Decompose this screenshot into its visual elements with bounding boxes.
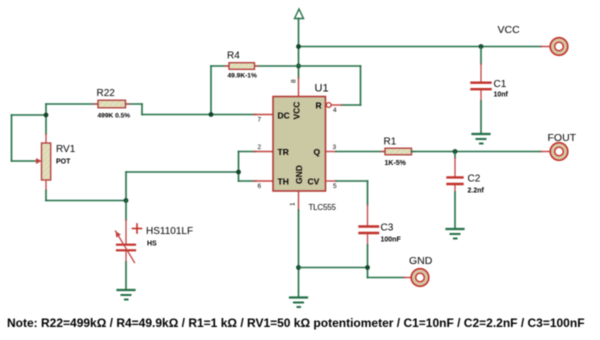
wire reset loop — [299, 66, 361, 105]
wire CV pin to C3 — [326, 180, 337, 182]
node junction at R4/reset loop — [296, 64, 301, 69]
ground under sensor — [118, 290, 135, 300]
node junction R4/DC — [209, 112, 214, 117]
svg-text:1: 1 — [290, 202, 297, 206]
ground under C1 — [473, 134, 490, 144]
wire main vertical VCC rail — [298, 19, 300, 79]
ground under chip — [290, 298, 307, 308]
pin stub GND bottom — [298, 191, 300, 210]
svg-text:6: 6 — [258, 183, 262, 190]
svg-text:5: 5 — [333, 183, 337, 190]
resistor R1 — [381, 148, 415, 155]
svg-text:TR: TR — [278, 147, 289, 157]
svg-text:C3: C3 — [381, 223, 394, 234]
svg-text:FOUT: FOUT — [548, 132, 577, 144]
wire R4 left down to DC net — [210, 66, 212, 115]
svg-text:R4: R4 — [227, 51, 240, 62]
svg-text:1K-5%: 1K-5% — [385, 160, 407, 167]
svg-text:R: R — [316, 101, 322, 111]
svg-text:100nF: 100nF — [381, 237, 402, 244]
resistor R22 — [46, 100, 142, 108]
svg-text:49.9K-1%: 49.9K-1% — [228, 73, 257, 80]
node junction sensor branch — [124, 198, 129, 203]
svg-text:GND: GND — [294, 165, 304, 184]
svg-text:TH: TH — [278, 177, 289, 187]
svg-text:HS1101LF: HS1101LF — [146, 226, 193, 237]
svg-text:7: 7 — [258, 117, 262, 124]
pin stub R pin — [332, 104, 342, 106]
potentiometer RV1 — [36, 134, 51, 191]
svg-text:R1: R1 — [384, 137, 397, 148]
pin stub TR — [254, 151, 273, 153]
wire RV1 top branch — [12, 104, 47, 161]
svg-text:GND: GND — [409, 255, 433, 267]
svg-text:2: 2 — [258, 144, 262, 151]
wire GND pin down — [298, 210, 300, 297]
svg-text:DC: DC — [278, 111, 290, 121]
reset bubble — [326, 103, 331, 108]
pin stub TH — [254, 180, 273, 182]
svg-text:TLC555: TLC555 — [309, 203, 337, 212]
node junction C3/GND — [365, 265, 370, 270]
svg-text:VCC: VCC — [498, 24, 521, 36]
svg-text:Q: Q — [314, 147, 321, 157]
power symbol top — [295, 9, 304, 19]
terminal VCC — [541, 38, 568, 56]
capacitor C3 — [360, 205, 379, 268]
svg-text:POT: POT — [56, 159, 71, 166]
svg-text:8: 8 — [291, 79, 298, 83]
pin stub DC — [254, 114, 273, 116]
svg-text:C2: C2 — [468, 174, 481, 185]
wire Q output — [326, 151, 337, 153]
capacitor C2 — [448, 152, 463, 229]
svg-text:VCC: VCC — [292, 102, 302, 120]
node junction at VCC rail top — [296, 44, 301, 49]
node junction TR/TH — [236, 170, 241, 175]
svg-text:499K 0.5%: 499K 0.5% — [98, 113, 131, 120]
terminal GND — [404, 269, 429, 287]
svg-text:U1: U1 — [315, 83, 329, 95]
wire R22 to DC pin step — [142, 104, 256, 115]
wire GND net horizontal — [299, 268, 405, 278]
svg-text:HS: HS — [147, 241, 157, 248]
wire Q to R1 — [336, 151, 385, 153]
capacitor C1 — [472, 47, 491, 134]
node junction RV1 wiper loop — [44, 113, 49, 118]
sensor HS1101LF — [116, 201, 142, 290]
wire top horizontal to VCC terminal — [299, 46, 542, 48]
svg-text:10nf: 10nf — [494, 92, 509, 99]
svg-text:CV: CV — [308, 177, 320, 187]
wire RV1 bottom to TR/TH net — [46, 152, 256, 201]
svg-text:3: 3 — [333, 144, 337, 151]
ground under C2 — [447, 229, 464, 239]
svg-text:Note: R22=499kΩ / R4=49.9kΩ /: Note: R22=499kΩ / R4=49.9kΩ / R1=1 kΩ / … — [7, 316, 585, 330]
svg-text:4: 4 — [333, 107, 337, 114]
wiper arrow — [36, 160, 40, 162]
svg-text:RV1: RV1 — [56, 144, 76, 155]
pin stub VCC top — [298, 78, 300, 97]
svg-text:2.2nf: 2.2nf — [468, 188, 485, 195]
plus sign — [133, 228, 142, 230]
resistor R4 — [211, 63, 299, 70]
IC U1 TLC555 body — [273, 97, 326, 192]
node junction GND net — [296, 265, 301, 270]
node junction at C1 branch — [479, 44, 484, 49]
node junction C2 branch — [453, 149, 458, 154]
wire R1 to FOUT — [412, 151, 542, 153]
sensor arrow diagonal — [116, 231, 135, 263]
svg-text:C1: C1 — [494, 79, 507, 90]
svg-text:R22: R22 — [97, 88, 116, 99]
terminal FOUT — [541, 143, 568, 161]
